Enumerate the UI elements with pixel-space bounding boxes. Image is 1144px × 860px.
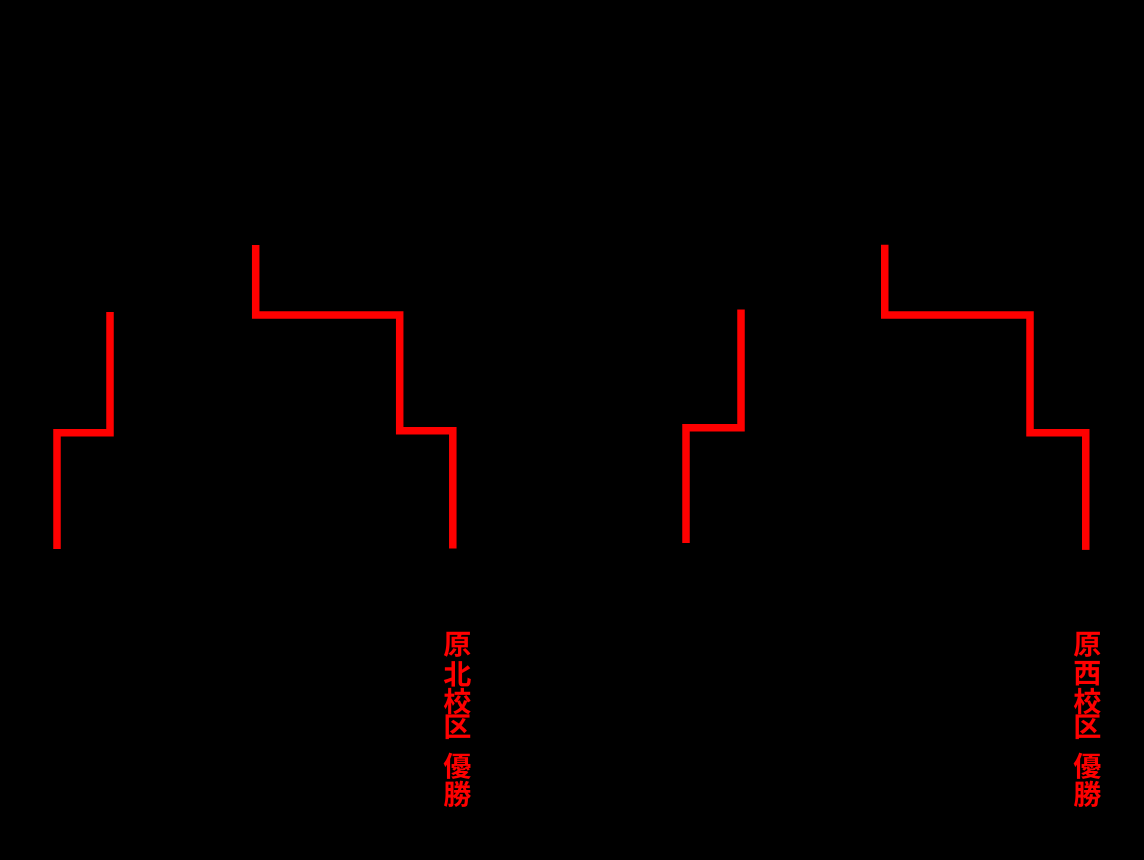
label-left char 勝	[444, 781, 471, 807]
label-left char 北	[444, 661, 471, 687]
label-right char 優	[1074, 753, 1101, 779]
winner path left-champion: riser D, semifinal bar E, drop F, match bar G, leg H	[256, 245, 453, 549]
label-left char 原	[444, 632, 471, 657]
label-right char 勝	[1074, 781, 1101, 807]
label-left char 区	[446, 714, 471, 739]
winner path left-outer: leg A, match bar B, riser C	[57, 312, 110, 549]
label-left char 優	[444, 753, 471, 779]
label-right char 西	[1075, 661, 1100, 686]
label-right char 原	[1074, 632, 1101, 657]
label-right char 校	[1074, 688, 1101, 714]
label-left char 校	[444, 688, 471, 714]
winner path right-champion: riser L, semifinal bar M, drop N, match bar O, leg P	[885, 245, 1086, 550]
label-right char 区	[1076, 714, 1101, 739]
winner path right-outer: leg I, match bar J, riser K	[686, 310, 741, 544]
